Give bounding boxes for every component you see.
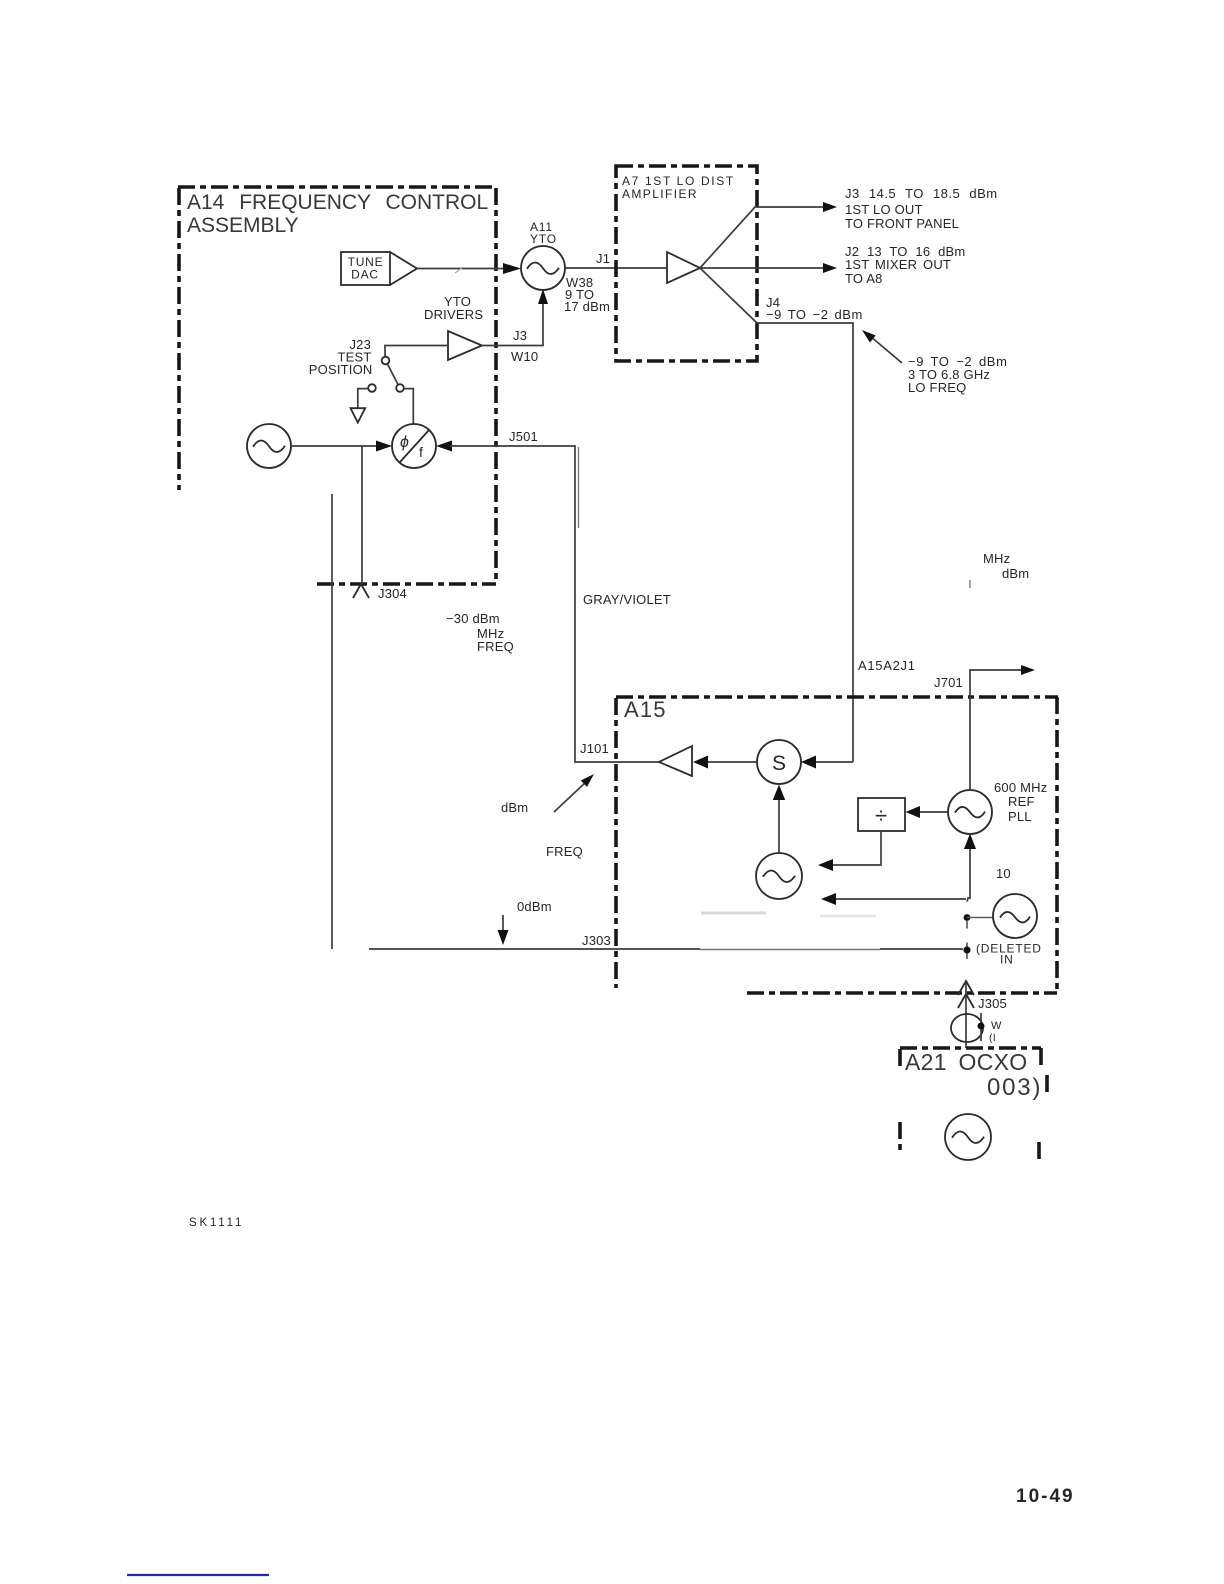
svg-text:DRIVERS: DRIVERS [424, 307, 483, 322]
svg-text:−9 TO −2 dBm: −9 TO −2 dBm [766, 307, 863, 322]
svg-text:J3: J3 [513, 328, 527, 343]
svg-text:A15: A15 [624, 697, 667, 722]
svg-text:f: f [419, 444, 423, 460]
svg-text:LO FREQ: LO FREQ [908, 380, 966, 395]
svg-text:IN: IN [1000, 953, 1014, 967]
svg-text:J305: J305 [978, 996, 1007, 1011]
svg-text:dBm: dBm [1002, 566, 1029, 581]
svg-text:SK1111: SK1111 [189, 1217, 244, 1229]
svg-text:10-49: 10-49 [1016, 1486, 1075, 1507]
svg-text:W: W [991, 1020, 1002, 1032]
svg-text:1ST MIXER OUT: 1ST MIXER OUT [845, 257, 951, 272]
svg-text:W10: W10 [511, 349, 538, 364]
svg-text:TO A8: TO A8 [845, 271, 883, 286]
svg-text:J303: J303 [582, 933, 611, 948]
svg-text:10: 10 [996, 866, 1011, 881]
svg-text:J304: J304 [378, 586, 407, 601]
svg-text:003): 003) [987, 1074, 1042, 1101]
svg-text:J701: J701 [934, 675, 963, 690]
svg-text:A7 1ST LO DIST: A7 1ST LO DIST [622, 174, 735, 188]
svg-text:POSITION: POSITION [309, 362, 373, 377]
svg-text:AMPLIFIER: AMPLIFIER [622, 187, 698, 201]
svg-text:A21 OCXO: A21 OCXO [905, 1049, 1027, 1075]
svg-text:−30 dBm: −30 dBm [446, 611, 500, 626]
svg-text:J1: J1 [596, 251, 610, 266]
svg-text:PLL: PLL [1008, 809, 1032, 824]
svg-text:MHz: MHz [983, 551, 1010, 566]
svg-text:S: S [772, 752, 786, 775]
svg-text:J101: J101 [580, 741, 609, 756]
svg-text:FREQ: FREQ [477, 639, 514, 654]
svg-text:FREQ: FREQ [546, 844, 583, 859]
svg-text:J3 14.5 TO 18.5 dBm: J3 14.5 TO 18.5 dBm [845, 186, 998, 201]
svg-text:dBm: dBm [501, 800, 528, 815]
svg-text:A15A2J1: A15A2J1 [858, 658, 916, 673]
svg-text:600 MHz: 600 MHz [994, 780, 1047, 795]
svg-text:17 dBm: 17 dBm [564, 299, 610, 314]
svg-text:ϕ: ϕ [400, 434, 409, 451]
svg-text:1ST LO OUT: 1ST LO OUT [845, 202, 923, 217]
svg-text:÷: ÷ [875, 803, 887, 828]
svg-text:ASSEMBLY: ASSEMBLY [187, 214, 299, 237]
svg-text:YTO: YTO [530, 232, 557, 246]
svg-text:(I: (I [989, 1033, 996, 1044]
svg-text:GRAY/VIOLET: GRAY/VIOLET [583, 592, 671, 607]
svg-text:TO FRONT PANEL: TO FRONT PANEL [845, 216, 959, 231]
svg-text:DAC: DAC [351, 268, 379, 282]
svg-text:A14 FREQUENCY CONTROL: A14 FREQUENCY CONTROL [187, 191, 488, 214]
svg-text:J501: J501 [509, 429, 538, 444]
svg-text:REF: REF [1008, 794, 1035, 809]
svg-text:0dBm: 0dBm [517, 899, 552, 914]
